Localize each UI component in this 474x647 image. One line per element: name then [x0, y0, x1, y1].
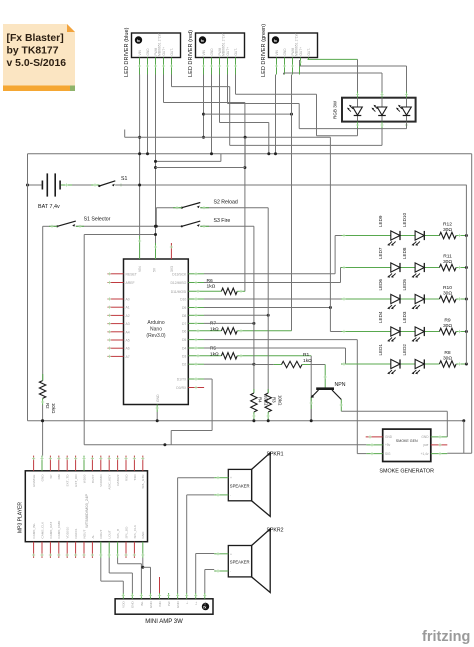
wire MP3 ROUT to amp — [100, 558, 102, 581]
resistor R5 1k on D3 — [188, 355, 221, 357]
svg-text:LED9: LED9 — [378, 215, 383, 227]
svg-text:D0/RX: D0/RX — [176, 386, 187, 390]
svg-text:VDD: VDD — [122, 601, 126, 608]
svg-text:BAT 7,4v: BAT 7,4v — [38, 204, 60, 210]
switch S1 Selector — [56, 221, 76, 227]
wire d3 PWM down through to R7 — [291, 75, 293, 331]
MP3 bottom pin ROUT — [100, 542, 102, 558]
svg-text:AL: AL — [91, 534, 95, 538]
svg-text:D2: D2 — [182, 363, 186, 367]
svg-text:RESET: RESET — [126, 272, 137, 276]
amp pin INL — [140, 593, 142, 599]
svg-text:10kΩ: 10kΩ — [278, 395, 283, 406]
MP3 bottom pin NOUT — [83, 542, 85, 558]
LED row LED4/LED3/R9 — [341, 331, 439, 333]
junction LED bus — [465, 234, 468, 237]
svg-text:PW: PW — [167, 601, 171, 606]
svg-text:fx: fx — [137, 39, 140, 43]
pin RESET — [108, 273, 124, 275]
junction gnd left — [41, 419, 44, 422]
RGB LED element 1 — [347, 99, 362, 121]
svg-text:(Rev3.0): (Rev3.0) — [146, 333, 166, 339]
svg-text:SPEAKER: SPEAKER — [230, 483, 250, 488]
speaker SPKR1 — [252, 453, 271, 517]
pin OUT+ of driver 2 — [227, 58, 229, 75]
wire NPN emitter to gnd — [310, 398, 312, 410]
svg-text:R11: R11 — [443, 253, 452, 259]
svg-text:5V: 5V — [152, 267, 156, 272]
svg-text:VIN: VIN — [202, 49, 206, 55]
svg-text:LED6: LED6 — [378, 279, 383, 291]
svg-text:PWM: PWM — [218, 47, 222, 55]
svg-text:CAMS_CLK: CAMS_CLK — [40, 521, 44, 539]
svg-text:LOUT: LOUT — [108, 530, 112, 538]
svg-text:LED5: LED5 — [402, 279, 407, 291]
wire battery to S1 — [61, 184, 99, 186]
svg-text:D11/MOSI: D11/MOSI — [171, 290, 187, 294]
MP3 top pin EXT_DD — [75, 456, 77, 471]
svg-text:S1 Selector: S1 Selector — [84, 217, 111, 223]
amp pin GND — [149, 593, 151, 599]
svg-text:10kΩ: 10kΩ — [51, 403, 56, 414]
MP3 bottom pin GND — [142, 542, 144, 558]
svg-text:R+: R+ — [203, 601, 207, 605]
svg-text:PWM: PWM — [154, 47, 158, 55]
svg-text:fx: fx — [201, 39, 204, 43]
svg-text:-: - — [230, 570, 231, 574]
pin GND of driver 1 — [147, 58, 149, 75]
wire S2 column — [267, 208, 269, 393]
wire S2 left — [156, 207, 182, 209]
svg-text:AREF: AREF — [126, 281, 135, 285]
transistor NPN Q1 — [311, 387, 342, 399]
RGB pin top 2 — [381, 92, 383, 98]
IC LED DRIVER (green) — [261, 24, 318, 77]
svg-text:RXD: RXD — [124, 474, 128, 481]
MP3 bottom pin DAC01 — [75, 542, 77, 558]
pin VIN of driver 3 — [276, 58, 278, 75]
LED row LED1/LED2/R8 — [341, 363, 439, 365]
pin VIN of driver 2 — [203, 58, 205, 75]
svg-text:VDD010: VDD010 — [66, 527, 70, 539]
pin OUT- of driver 3 — [308, 58, 310, 60]
svg-text:NPN: NPN — [335, 382, 346, 388]
svg-text:10kΩ: 10kΩ — [263, 395, 268, 406]
MP3 bottom pin CAMS_CLK — [41, 542, 43, 558]
svg-text:GND: GND — [421, 435, 429, 439]
LED LED5 — [412, 294, 425, 309]
svg-text:LED3: LED3 — [402, 311, 407, 323]
rail top y154 — [28, 153, 472, 155]
SPKR1 pin + — [214, 477, 228, 479]
wire R5 down to gnd rail — [310, 356, 312, 421]
MP3 top pin RXD — [125, 456, 127, 471]
switch S1 — [98, 181, 115, 187]
wire D13 to LED row1 — [188, 273, 204, 275]
svg-text:OUT-: OUT- — [234, 48, 238, 56]
svg-text:SPL_GTR: SPL_GTR — [141, 474, 145, 489]
pin D0/RX stub — [188, 387, 204, 389]
svg-text:SPL_BD: SPL_BD — [124, 526, 128, 539]
RGB pin top 3 — [406, 92, 408, 98]
LED row LED9/LED10/R12 — [341, 235, 439, 237]
svg-text:WT588D/M03_24P: WT588D/M03_24P — [84, 494, 89, 528]
pin A6 — [108, 347, 124, 349]
junction LED bus — [465, 266, 468, 269]
amp pin PW — [168, 593, 170, 599]
svg-text:RGB 3W: RGB 3W — [333, 100, 338, 119]
svg-text:GND: GND — [131, 601, 135, 609]
LED LED9 — [387, 231, 400, 246]
resistor R3 10k — [265, 393, 271, 412]
MP3 bottom pin VDD010 — [66, 542, 68, 558]
svg-text:+5v: +5v — [385, 443, 391, 447]
resistor R10 30ohm — [439, 296, 456, 302]
wire S1 to VIN junction and right rail — [115, 184, 127, 186]
svg-text:3V3: 3V3 — [170, 266, 174, 272]
wire NPN base — [324, 365, 326, 388]
LED LED1 — [387, 359, 400, 374]
svg-text:SPKR2: SPKR2 — [267, 528, 284, 534]
MP3 top pin TXD — [133, 456, 135, 471]
pin GND of driver 2 — [211, 58, 213, 75]
wire D7 to S3/R4 column — [188, 322, 204, 324]
LED bus vertical — [465, 185, 467, 364]
pin OUT+ of driver 3 — [300, 58, 302, 67]
RGB pin top 1 — [357, 92, 359, 98]
MP3 top pin SP — [49, 456, 51, 471]
pin A3 — [108, 323, 124, 325]
svg-text:A2: A2 — [126, 314, 130, 318]
wire d1 PWM straight down to Arduino 5V — [155, 75, 157, 244]
amp pin INR — [159, 593, 161, 599]
MP3 bottom pin CAMS_CMD — [58, 542, 60, 558]
MP3 top pin BUSY — [91, 456, 93, 471]
RGB pin bottom 1 — [357, 122, 359, 129]
svg-text:fritzing: fritzing — [422, 629, 470, 645]
wire D1/TX to amp — [188, 378, 204, 380]
svg-text:DATA22: DATA22 — [116, 474, 120, 486]
svg-text:GND: GND — [283, 48, 287, 56]
resistor R4 10k — [251, 393, 257, 412]
svg-text:S3 Fire: S3 Fire — [214, 218, 231, 224]
smoke pin +1,4v right — [431, 453, 448, 455]
svg-text:R1: R1 — [303, 352, 310, 358]
svg-text:LED DRIVER (green): LED DRIVER (green) — [261, 24, 267, 77]
svg-text:R10: R10 — [443, 285, 452, 291]
wire selector right — [76, 225, 182, 227]
svg-text:VIN: VIN — [275, 49, 279, 55]
LED LED8 — [412, 263, 425, 278]
battery BAT 7,4v — [42, 173, 60, 196]
junction R6 feed — [244, 136, 247, 139]
svg-text:OUT+: OUT+ — [299, 47, 303, 56]
wire amp to SPKR2 + — [195, 554, 197, 594]
svg-text:R2: R2 — [45, 403, 50, 409]
svg-text:+1,4v: +1,4v — [421, 452, 429, 456]
wire d3 VIN down to rail — [275, 75, 277, 154]
LED LED4 — [387, 327, 400, 342]
MP3 top pin ASIC_KEY — [108, 456, 110, 471]
svg-text:OUT+: OUT+ — [226, 47, 230, 56]
svg-text:SIG: SIG — [385, 452, 391, 456]
svg-text:1kΩ: 1kΩ — [207, 284, 216, 290]
svg-text:A3: A3 — [126, 322, 130, 326]
svg-text:TXD: TXD — [133, 474, 137, 481]
wire MP3 SPL_B to amp — [117, 558, 119, 564]
resistor R8 30ohm — [439, 361, 456, 367]
svg-text:1kΩ: 1kΩ — [210, 326, 219, 332]
pin A7 — [108, 355, 124, 357]
svg-text:GND: GND — [146, 48, 150, 56]
SPKR2 pin - — [214, 570, 228, 572]
MP3 bottom pin AL — [91, 542, 93, 558]
svg-text:VIN: VIN — [138, 49, 142, 55]
SPKR1 pin - — [214, 494, 228, 496]
svg-text:v 5.0-S/2016: v 5.0-S/2016 — [7, 58, 67, 69]
svg-text:LED DRIVER (blue): LED DRIVER (blue) — [124, 27, 130, 77]
svg-text:LED4: LED4 — [378, 311, 383, 323]
wire D9 to LED row4 — [188, 307, 204, 309]
wire d2 GND down to rail — [211, 75, 213, 154]
sticky note [Fx Blaster] — [3, 24, 75, 91]
svg-text:BUSY: BUSY — [91, 475, 95, 483]
resistor R11 30ohm — [439, 264, 456, 270]
LED LED2 — [412, 359, 425, 374]
svg-text:SMOKE GENERATOR: SMOKE GENERATOR — [379, 469, 434, 475]
amp pin GND — [131, 593, 133, 599]
wire d3 OUT+ to RGB pin3 top — [299, 66, 301, 75]
LED LED3 — [412, 327, 425, 342]
amp pin L- — [186, 593, 188, 599]
svg-text:30Ω: 30Ω — [443, 355, 452, 361]
IC LED DRIVER (blue) — [124, 27, 181, 77]
wire d1 VIN straight down to Arduino VIN — [139, 75, 141, 237]
module RGB 3W — [342, 98, 416, 122]
pin PWM of driver 1 — [155, 58, 157, 75]
pin A1 — [108, 306, 124, 308]
wire S2 right to R3 column — [200, 207, 268, 209]
smoke pin GND right — [431, 436, 448, 438]
svg-text:SP: SP — [49, 475, 53, 479]
smoke pin pwr right (red stub) — [431, 444, 448, 446]
svg-text:MINI AMP 3W: MINI AMP 3W — [145, 619, 183, 625]
MP3 bottom pin SPL_B — [117, 542, 119, 558]
svg-text:D3: D3 — [182, 354, 186, 358]
pin OUT- of driver 2 — [235, 58, 237, 75]
pin A2 — [108, 314, 124, 316]
svg-text:EXT_TD: EXT_TD — [66, 474, 70, 487]
junction LED bus — [465, 330, 468, 333]
smoke pin SIG left — [366, 453, 382, 455]
svg-text:LED10: LED10 — [402, 213, 407, 227]
svg-text:OUT-: OUT- — [170, 48, 174, 56]
svg-text:INR: INR — [158, 601, 162, 607]
junction LED bus — [465, 363, 468, 366]
svg-text:fx: fx — [274, 39, 277, 43]
pin GND bottom — [156, 405, 158, 413]
resistor R1 1k to NPN base — [254, 364, 274, 366]
RGB pin bottom 3 — [406, 122, 408, 129]
svg-text:CAMS_DAT: CAMS_DAT — [49, 522, 53, 539]
svg-text:R8: R8 — [444, 350, 451, 356]
svg-text:SPL_B: SPL_B — [116, 529, 120, 539]
wire NPN collector to smoke right gnd — [340, 400, 342, 412]
pin OUT+ of driver 1 — [163, 58, 165, 75]
svg-text:-: - — [230, 493, 231, 497]
wire d2 OUT+ to RGB pin3 bottom — [227, 75, 229, 104]
svg-text:WD00: WD00 — [82, 474, 86, 483]
svg-text:GND: GND — [385, 435, 393, 439]
svg-text:SPKR1: SPKR1 — [267, 452, 284, 458]
svg-text:D5: D5 — [182, 338, 186, 342]
pin PWM of driver 2 — [219, 58, 221, 75]
wire D12 to LED row2 — [188, 282, 204, 284]
junction gnd arduino — [156, 419, 159, 422]
svg-text:LED2: LED2 — [402, 344, 407, 356]
MP3 top pin GND — [41, 456, 43, 471]
svg-text:VDD33D: VDD33D — [99, 474, 103, 487]
LED LED10 — [412, 231, 425, 246]
IC LED DRIVER (red) — [188, 30, 245, 77]
wire amp to SPKR1 + — [177, 478, 179, 593]
resistor R9 30ohm — [439, 328, 456, 334]
amp red stub — [159, 577, 161, 593]
svg-text:DAC01: DAC01 — [74, 528, 78, 538]
SPKR2 pin + — [214, 553, 228, 555]
wire battery left — [28, 184, 42, 186]
switch S3 Fire — [181, 221, 201, 227]
pin A4 — [108, 331, 124, 333]
wire MP3 LOUT to amp — [108, 558, 110, 573]
LED LED7 — [387, 263, 400, 278]
wire d1 GND down to rail — [147, 75, 149, 154]
svg-text:GND: GND — [141, 531, 145, 539]
wire selector vertical to R2 — [42, 226, 44, 380]
pin AREF — [108, 282, 124, 284]
MP3 top pin DM — [58, 456, 60, 471]
svg-text:+: + — [230, 552, 232, 556]
LED row LED7/LED8/R11 — [341, 267, 439, 269]
amp pin L+ — [195, 593, 197, 599]
svg-text:Arduino: Arduino — [147, 320, 164, 326]
svg-text:A6: A6 — [126, 347, 130, 351]
resistor R6 1k on D11 — [188, 290, 221, 292]
wire d1 OUT- to RGB pin2 bottom — [171, 75, 173, 87]
rail left vertical — [27, 154, 29, 421]
svg-text:D8: D8 — [182, 314, 186, 318]
junction LED bus — [465, 298, 468, 301]
svg-text:D1/TX: D1/TX — [177, 378, 187, 382]
svg-text:ENABLE: ENABLE — [32, 475, 36, 487]
svg-text:D7: D7 — [182, 322, 186, 326]
wire S3 column — [253, 226, 255, 393]
svg-text:1kΩ: 1kΩ — [303, 358, 312, 364]
svg-text:R4: R4 — [257, 397, 262, 403]
svg-text:L-: L- — [185, 601, 189, 604]
svg-text:Nano: Nano — [150, 327, 162, 333]
svg-text:LED1: LED1 — [378, 344, 383, 356]
svg-text:A5: A5 — [126, 339, 130, 343]
rail right vertical — [471, 154, 473, 453]
svg-text:R9: R9 — [444, 317, 451, 323]
IC U1 Arduino Nano — [124, 259, 189, 405]
wire amp to SPKR2 - — [204, 570, 206, 594]
wire bus y137 — [125, 136, 331, 138]
svg-text:GND: GND — [176, 601, 180, 609]
wire 5V branch to smoke +5v — [84, 234, 155, 236]
svg-text:SMOKE GEN: SMOKE GEN — [396, 439, 418, 443]
wire amp to SPKR1 - — [186, 495, 188, 593]
svg-text:D13/SCK: D13/SCK — [172, 272, 187, 276]
svg-text:ROUT: ROUT — [99, 530, 103, 539]
wire h167 tie — [156, 167, 245, 169]
svg-text:L+: L+ — [194, 601, 198, 605]
svg-text:R3: R3 — [272, 397, 277, 403]
svg-text:GND: GND — [40, 474, 44, 482]
RGB pin bottom 2 — [381, 122, 383, 129]
svg-text:OUT+: OUT+ — [162, 47, 166, 56]
rail ground y421 — [28, 420, 464, 422]
wire d2 PWM jog — [219, 75, 221, 123]
wire d2 OUT- to RGB pin1 bottom — [235, 75, 237, 95]
svg-text:30Ω: 30Ω — [443, 259, 452, 265]
pin 3V3 stub — [170, 243, 172, 259]
svg-text:CAMS_INL: CAMS_INL — [32, 523, 36, 539]
svg-text:A7: A7 — [126, 355, 130, 359]
svg-text:VIN: VIN — [138, 266, 142, 272]
pin 5V wire — [155, 243, 157, 259]
svg-text:GND: GND — [210, 48, 214, 56]
svg-text:A1: A1 — [126, 306, 130, 310]
svg-text:30Ω: 30Ω — [443, 290, 452, 296]
wire d2 VIN down, tie to d3 PWM — [203, 75, 205, 138]
pin VIN of driver 1 — [139, 58, 141, 75]
pin PWM of driver 3 — [292, 58, 294, 75]
smoke pin GND left (red stub) — [366, 436, 383, 438]
MP3 bottom pin CAMS_INL — [33, 542, 35, 558]
MP3 top pin SPL_GTR — [142, 456, 144, 471]
resistor R2 10k — [42, 374, 44, 381]
wire d1 OUT+ to R6 column — [163, 75, 165, 103]
junction R2 gnd rail — [41, 419, 44, 422]
MP3 top pin EXT_TD — [66, 456, 68, 471]
wire d3 GND to RGB pin2 top — [283, 73, 285, 75]
MP3 top pin ENABLE — [33, 456, 35, 471]
amp pin R+ — [204, 593, 206, 599]
svg-text:D9: D9 — [182, 306, 186, 310]
IC MP3 player — [25, 471, 147, 542]
junction battery rail left — [26, 184, 29, 187]
amp pin GND — [177, 593, 179, 599]
svg-text:S1: S1 — [121, 176, 127, 182]
LED LED6 — [387, 294, 400, 309]
svg-text:NOUT: NOUT — [82, 530, 86, 539]
svg-text:GND: GND — [156, 394, 160, 402]
MP3 top pin DATA22 — [117, 456, 119, 471]
wire D8 to S2/R3 column — [188, 314, 204, 316]
wire d3 OUT- to RGB pin1 top — [308, 58, 358, 60]
RGB LED element 2 — [371, 99, 386, 121]
svg-text:R12: R12 — [443, 221, 452, 227]
svg-text:A0: A0 — [126, 298, 130, 302]
svg-text:+: + — [230, 476, 232, 480]
svg-text:PWM: PWM — [291, 47, 295, 55]
resistor R7 1k on D6 — [188, 330, 221, 332]
pin GND of driver 3 — [284, 58, 286, 75]
switch S2 Reload — [181, 203, 201, 209]
wire MP3 GND to amp — [142, 558, 144, 567]
